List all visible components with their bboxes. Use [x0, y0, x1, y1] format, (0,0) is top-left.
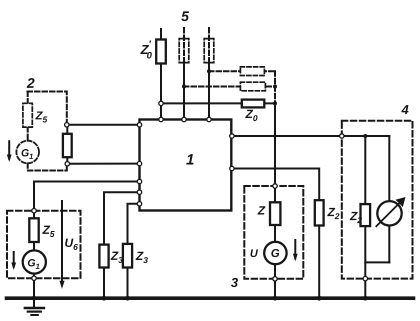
- resistor Z3 left: [99, 245, 108, 268]
- terminal box1 top 3: [207, 117, 211, 121]
- terminal box3 bottom: [273, 277, 277, 281]
- junction dot bus at box4: [363, 296, 368, 301]
- terminal box1 left 1: [137, 123, 141, 127]
- shield box 4 (dashed): [342, 121, 413, 279]
- wire: [183, 63, 185, 119]
- terminal box1 left 3: [137, 179, 141, 183]
- terminal box4 left edge on wire A: [340, 134, 344, 138]
- arrowhead lower G1: [11, 263, 16, 271]
- resistor balance (solid, unlabeled): [63, 134, 72, 157]
- meter arrow: [376, 201, 402, 227]
- wire B from box1 right terminal to outer Z2: [231, 169, 319, 299]
- resistor Z5 (dashed, phantom source 2): [23, 103, 32, 127]
- wire lower-left source vertical to ground bus: [33, 218, 35, 298]
- resistor Z (box 3): [270, 202, 280, 225]
- wire 3 from box1 to lower-left shield box: [34, 182, 140, 219]
- resistor (dashed) on right stub: [204, 39, 214, 63]
- svg-text:U: U: [250, 248, 259, 260]
- arrowhead U6: [59, 281, 64, 289]
- svg-text:Z3: Z3: [110, 249, 123, 265]
- measuring network box 1: [140, 120, 232, 211]
- wire joining meter bottom to Z2 branch: [365, 261, 389, 263]
- terminal box1 top 1: [159, 117, 163, 121]
- wire terminal-5 stub middle (dashed top): [183, 28, 185, 63]
- svg-text:Z: Z: [257, 204, 266, 218]
- ground stroke 1: [25, 307, 44, 309]
- wire (dashed) vertical joining dashed rows to Z0 node: [274, 71, 276, 103]
- junction dot bus at outer Z2: [317, 296, 322, 301]
- shield box 3 (dashed): [244, 186, 303, 279]
- junction dot dashed row1 tap: [207, 69, 211, 73]
- junction dot Z0 right node: [273, 101, 277, 105]
- terminal box3 top: [273, 184, 277, 188]
- svg-text:Z3: Z3: [135, 249, 148, 265]
- wire (dashed) between Z5 and G1: [27, 127, 29, 141]
- resistor (dashed) row 1 horizontal: [240, 67, 264, 76]
- junction dot wire A / Z2 box4: [363, 134, 367, 138]
- wire terminal-5 stub left: [160, 29, 162, 119]
- terminal source wire 1: [65, 123, 69, 127]
- arrowhead phantom G1: [7, 155, 12, 163]
- generator G1 (lower-left source): [23, 250, 46, 273]
- wire terminal-5 stub right (dashed top): [208, 28, 210, 63]
- generator G (box 3): [264, 242, 286, 264]
- wire 2 lower source wire to box1: [67, 163, 139, 165]
- wire meter branch vertical: [388, 136, 390, 262]
- junction dot bus at box3: [273, 296, 278, 301]
- svg-text:G: G: [271, 248, 280, 260]
- arrow current direction at lower G1: [13, 252, 15, 267]
- terminal box1 right 1: [230, 134, 234, 138]
- terminal lower-left box top: [32, 209, 36, 213]
- resistor Z5 (lower-left source): [29, 218, 38, 242]
- arrow current direction at phantom G1: [8, 141, 10, 158]
- wire 4 from box1 to left Z3: [104, 192, 140, 298]
- wire (dashed) from right stub to dashed resistor row 1: [209, 70, 275, 72]
- svg-text:Z0: Z0: [245, 107, 258, 123]
- wire Z0 row: [161, 102, 275, 104]
- junction dot bus at lower-left source: [32, 296, 37, 301]
- ground stroke 3: [31, 314, 38, 316]
- svg-text:Z2: Z2: [326, 205, 339, 221]
- svg-text:1: 1: [186, 151, 194, 168]
- ground stroke 2: [28, 311, 41, 313]
- terminal node Z0' junction: [159, 101, 163, 105]
- shield box (dashed) lower-left U6 source: [7, 211, 81, 279]
- terminal box1 left 4: [137, 190, 141, 194]
- wire (dashed) below G1 to bottom run: [28, 163, 67, 170]
- svg-text:4: 4: [401, 102, 410, 117]
- terminal box1 right 2: [230, 166, 234, 170]
- wire vertical from Z0 junction down through box 3 to ground bus: [274, 103, 276, 298]
- terminal lower-left box bottom: [32, 276, 36, 280]
- wire (dashed) from middle stub to dashed resistor row 2: [184, 86, 275, 88]
- resistor (dashed) on middle stub: [179, 39, 189, 63]
- svg-text:2: 2: [26, 75, 35, 91]
- resistor Z2 outer: [315, 200, 324, 225]
- wire A from box1 right terminal to meter in box 4: [231, 135, 389, 137]
- arrow at box3 G: [294, 240, 296, 259]
- generator G1 (dashed circle, phantom source 2): [16, 141, 39, 164]
- resistor Z3 right: [123, 244, 132, 268]
- terminal box1 left 5: [137, 202, 141, 206]
- terminal source wire 2: [65, 162, 69, 166]
- terminal box1 left 2: [137, 161, 141, 165]
- junction dot bus at Z3 right: [125, 296, 130, 301]
- terminal box4 bottom: [363, 276, 367, 280]
- junction dot dashed row2 tap: [182, 85, 186, 89]
- wire balance-resistor branch vertical: [66, 125, 68, 164]
- wire (dashed) left column of outline 2: [27, 92, 29, 104]
- voltage arrow U6: [61, 201, 63, 285]
- arrowhead box3 G: [293, 254, 298, 261]
- resistor Z0 (solid horizontal): [242, 100, 264, 108]
- svg-text:Z5: Z5: [41, 223, 54, 239]
- terminal box1 top 2: [182, 117, 186, 121]
- wire: [208, 63, 210, 119]
- svg-text:5: 5: [181, 8, 189, 24]
- arrowhead meter: [396, 197, 406, 207]
- svg-text:U6: U6: [64, 236, 78, 252]
- wire 1 from source branch to box1 left terminal: [67, 124, 140, 126]
- resistor Z2 (box 4): [361, 204, 371, 226]
- resistor (dashed) row 2 horizontal: [240, 82, 265, 91]
- ground bus wire: [7, 296, 414, 300]
- ground lead: [33, 298, 35, 306]
- junction dot dashed right column: [273, 85, 277, 89]
- junction dot bus at Z3 left: [102, 296, 107, 301]
- shield outline 2 (dashed loop of phantom source): [28, 92, 67, 125]
- svg-text:3: 3: [231, 275, 239, 290]
- wire Z2 (box4) branch vertical: [364, 136, 366, 298]
- meter (box 4): [377, 201, 401, 225]
- wire 5 from box1 to right Z3: [128, 204, 140, 298]
- resistor Z0' (solid, top left stub): [156, 40, 166, 64]
- svg-text:Z5: Z5: [35, 110, 48, 124]
- svg-text:Z′0: Z′0: [140, 39, 153, 62]
